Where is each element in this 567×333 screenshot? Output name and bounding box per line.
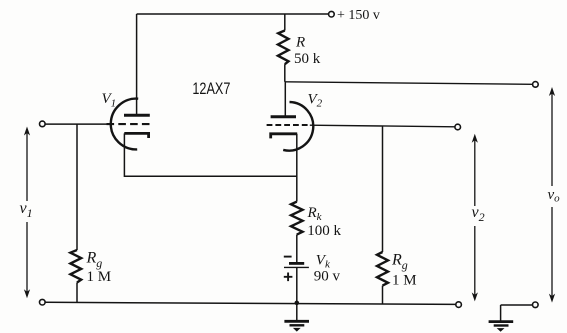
label 50 k: [294, 51, 321, 67]
arrow vo: [549, 87, 555, 303]
wire V1 cathode lead: [124, 133, 296, 176]
wire right Rg riser: [382, 126, 384, 252]
triode V1 grid (dashed): [107, 123, 150, 125]
resistor Rk: [291, 202, 303, 235]
battery Vk plate short: [289, 262, 304, 265]
label R: [295, 35, 305, 51]
battery plus sign: [284, 273, 293, 282]
label 100 k: [307, 223, 341, 239]
label v1: [20, 200, 33, 220]
wire R bottom lead: [284, 64, 286, 82]
wire R top lead: [284, 14, 286, 31]
wire left input: [45, 123, 109, 125]
triode V2 plate: [271, 115, 296, 118]
terminal vo bottom: [533, 302, 539, 308]
terminal vo top: [533, 82, 539, 88]
label 12AX7: [192, 79, 230, 98]
svg-text:50 k: 50 k: [294, 51, 321, 67]
label Rk: [307, 205, 323, 223]
triode V1 cathode: [124, 133, 148, 138]
label 90 v: [314, 268, 341, 284]
battery Vk plate long: [284, 266, 309, 268]
wire V1 plate lead: [136, 14, 138, 115]
ground center (below battery): [284, 303, 309, 332]
label vo: [548, 187, 561, 205]
resistor Rg right: [377, 252, 388, 286]
svg-text:90 v: 90 v: [314, 268, 341, 284]
label 1 M left: [87, 269, 112, 285]
triode V1 plate: [124, 114, 150, 117]
triode V2 envelope: [283, 102, 313, 151]
wire V2 grid to right terminal: [310, 125, 455, 127]
wire Rg right bottom lead: [382, 286, 384, 304]
label Vk: [316, 252, 331, 270]
terminal bottom right: [456, 302, 462, 308]
wire left Rg riser: [76, 124, 78, 250]
wire Rg left bottom lead: [76, 283, 78, 303]
arrow v2: [472, 134, 478, 302]
junction dot: [295, 301, 300, 306]
terminal input bottom left: [40, 299, 46, 305]
wire top supply rail: [137, 13, 329, 15]
wire bottom rail: [45, 302, 456, 304]
label Rg right: [391, 252, 408, 273]
arrow v1: [24, 127, 30, 299]
svg-text:+ 150 v: + 150 v: [337, 8, 380, 23]
wire plate output to vo terminal: [285, 82, 533, 85]
label 1 M right: [392, 273, 417, 289]
terminal v2 top: [455, 124, 461, 130]
ground right: [489, 305, 533, 332]
triode V1 envelope: [111, 99, 138, 150]
triode V2 grid (dashed): [267, 124, 308, 126]
resistor R: [278, 31, 289, 65]
svg-text:12AX7: 12AX7: [192, 79, 230, 98]
svg-text:R: R: [295, 35, 305, 51]
svg-text:100 k: 100 k: [307, 223, 341, 239]
svg-text:1 M: 1 M: [87, 269, 112, 285]
terminal input top left: [40, 121, 46, 127]
wire V2 plate lead: [284, 82, 286, 117]
wire Rk to battery: [296, 235, 298, 262]
svg-text:1 M: 1 M: [392, 273, 417, 289]
label v2: [472, 204, 485, 224]
resistor Rg left: [70, 250, 81, 283]
wire V2 cathode lead down to Rk: [296, 134, 298, 202]
label V2: [308, 92, 323, 110]
label +150 v: [337, 8, 380, 23]
triode V2 cathode: [271, 134, 298, 139]
label V1: [102, 91, 117, 109]
terminal +150v: [329, 11, 335, 17]
label Rg left: [86, 250, 103, 271]
battery minus sign: [284, 256, 292, 258]
wire battery to bottom rail: [296, 267, 298, 303]
